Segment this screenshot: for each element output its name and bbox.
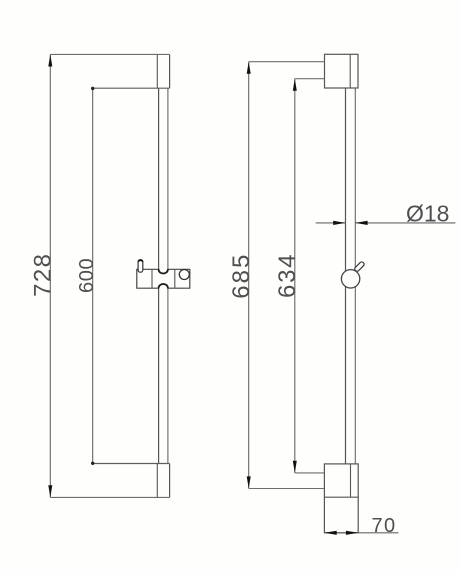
slider lock pin (front view) <box>138 260 143 273</box>
top end cap (front view) <box>156 54 158 88</box>
arrow Ø18 right (points left at bar) <box>355 221 367 225</box>
slider tube sleeve arc bottom <box>159 284 168 288</box>
holder knob circle (front view) <box>179 270 189 280</box>
bottom bracket face line <box>350 464 352 497</box>
slider tube sleeve arc top <box>159 269 168 273</box>
arrow 685 top <box>247 62 251 74</box>
rail bar (side view) <box>345 88 347 464</box>
svg-text:70: 70 <box>372 515 397 537</box>
bottom end cap (front view) <box>93 463 170 465</box>
top wall bracket (side view) <box>325 54 359 88</box>
arrow 634 top <box>293 79 297 91</box>
dimension 634 line <box>294 79 296 473</box>
dimension Ø18 right segment <box>355 222 455 224</box>
svg-text:Ø18: Ø18 <box>406 200 449 226</box>
arrow 728 top <box>48 54 52 66</box>
dimension 685 line <box>248 62 250 489</box>
bottom bracket split line <box>324 496 358 498</box>
top bracket face line <box>349 54 351 88</box>
arrow Ø18 left (points right at bar) <box>333 221 345 225</box>
dimension 70 line <box>324 532 398 534</box>
bottom wall bracket (side view) <box>324 464 358 533</box>
dimension 728 line <box>49 54 51 497</box>
wire: top cap bottom edge / 600 upper extension <box>93 87 170 89</box>
svg-text:685: 685 <box>228 253 255 299</box>
wire: 685 upper extension <box>249 61 325 63</box>
wire: 634 upper extension <box>295 78 325 80</box>
wire: top extension line (728 / top cap top edge) <box>50 53 169 55</box>
rail bar lower segment (front view) <box>158 288 160 463</box>
arrow 70 right (points right, tip at bracket right) <box>346 531 358 535</box>
wire: 685 lower extension <box>249 488 325 490</box>
rail bar upper segment (front view) <box>158 88 160 269</box>
slider divider left <box>151 269 153 288</box>
arrow 685 bottom <box>247 476 251 488</box>
slider body (front view) <box>137 269 190 288</box>
slider divider right <box>174 269 176 288</box>
svg-text:634: 634 <box>274 253 301 298</box>
arrow 728 bottom <box>48 485 52 497</box>
wire: 634 lower extension <box>295 472 325 474</box>
svg-text:728: 728 <box>29 253 56 297</box>
slider body circle (side view) <box>341 270 359 288</box>
slider knob pin (side view) <box>354 261 365 272</box>
node: 600 end dot bottom <box>91 462 94 465</box>
svg-text:600: 600 <box>76 258 98 293</box>
node: 600 end dot top <box>91 87 94 90</box>
arrow 634 bottom <box>293 461 297 473</box>
dimension 600 line <box>92 88 94 463</box>
dimension Ø18 left segment <box>316 222 346 224</box>
arrow 70 left (points left, tip at bracket left) <box>324 531 336 535</box>
